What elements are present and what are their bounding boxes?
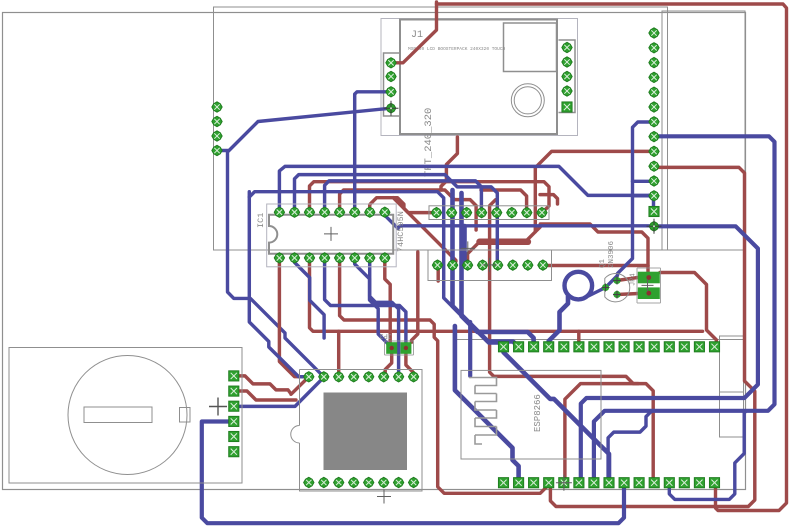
right column pad 12 xyxy=(649,191,659,201)
JP2 origin cross xyxy=(483,258,497,272)
wire blue bottom pad8 up to loop xyxy=(608,411,652,483)
wire blue battery pad3 to module pad2 xyxy=(234,377,324,406)
IC1 top pad 8 xyxy=(380,207,390,217)
pad row1 pin 10 xyxy=(634,342,644,352)
U3 bottom pad 8 xyxy=(408,477,418,487)
IC1 bottom pad 8 xyxy=(380,253,390,263)
wire red thick center segment xyxy=(480,239,528,246)
svg-text:Q1: Q1 xyxy=(599,258,607,268)
U3 top pad 4 xyxy=(349,372,359,382)
ESP8266 antenna meander xyxy=(469,378,497,445)
U3 bottom pad 1 xyxy=(304,477,314,487)
JP3 pad 2 xyxy=(400,342,411,354)
J1 left via pad xyxy=(384,101,399,116)
wire blue IC bottom pad2 down xyxy=(295,258,325,338)
U3 bottom pad 6 xyxy=(379,477,389,487)
U3 top pad 7 xyxy=(393,372,403,382)
left column pad 4 xyxy=(212,145,222,155)
wire red IC pad7 to JP1 pad1 xyxy=(370,198,437,213)
coil loop blue ring xyxy=(565,272,593,300)
IC1 top pad 1 xyxy=(274,207,284,217)
left column pad 1 xyxy=(212,102,222,112)
battery holder outline xyxy=(9,348,242,484)
U3 bottom pad 2 xyxy=(319,477,329,487)
JP4 pad 1 xyxy=(638,272,660,284)
wire blue IC pad2 to JP1 pad5 xyxy=(295,175,498,213)
wire red long diagonal to JP2 pad2 xyxy=(393,198,456,265)
IC1 top pad 3 xyxy=(304,207,314,217)
wire blue diagonal to bottom pad2 xyxy=(455,326,519,483)
IC1 bottom pad 5 xyxy=(334,253,344,263)
U3 top pad 3 xyxy=(334,372,344,382)
battery pad 6 xyxy=(229,447,239,457)
wire blue coil to Q1 xyxy=(589,288,606,296)
IC1 bottom pad 1 xyxy=(274,253,284,263)
battery pad 2 xyxy=(229,386,239,396)
wire blue IC bottom pad4 to JP3 pin2 xyxy=(325,258,406,348)
right column pad 7 xyxy=(649,117,659,127)
wire red IC bottom pad8 to JP3 pin1 xyxy=(385,258,390,342)
pad row1 pin 8 xyxy=(604,342,614,352)
wire blue JP1 pad5 to JP2 pad5 xyxy=(496,213,500,266)
U3 origin cross xyxy=(377,490,391,504)
wire blue battery pad4 bottom loop xyxy=(202,422,624,524)
U3 top pad 6 xyxy=(379,372,389,382)
JP2 pad 2 xyxy=(447,260,457,270)
connector J1 TFT_240_320 body xyxy=(381,19,578,136)
svg-text:JP4: JP4 xyxy=(630,273,638,286)
pad row2 pin 13 xyxy=(679,478,689,488)
pad row2 pin 9 xyxy=(619,478,629,488)
right column pad 3 xyxy=(649,57,659,67)
wire blue IC pad1 to right column pad xyxy=(279,166,654,212)
IC1 top pad 6 xyxy=(350,207,360,217)
pad row1 pin 3 xyxy=(529,342,539,352)
J1 right pad 1 xyxy=(562,42,572,52)
U3 bottom pad 5 xyxy=(364,477,374,487)
wire red IC pad5 jog down xyxy=(340,190,477,230)
top region outline xyxy=(214,7,668,250)
U3 top pad 8 xyxy=(408,372,418,382)
wire red battery pad1 to module pad1 xyxy=(234,376,309,394)
svg-text:J1: J1 xyxy=(411,30,423,41)
JP1 origin cross xyxy=(461,241,475,255)
IC1 bottom pad 2 xyxy=(289,253,299,263)
wire red Q1 collector to JP4 pin1 xyxy=(617,278,638,281)
J1 left pin bracket xyxy=(384,53,400,116)
IC1 bottom pad 6 xyxy=(350,253,360,263)
wire blue via right loop down to bottom pad6 xyxy=(581,226,758,482)
pad row1 pin 1 xyxy=(498,342,508,352)
JP1 pad 1 xyxy=(431,207,441,217)
module U2 ESP8266 outline xyxy=(461,370,601,459)
pad row2 pin 5 xyxy=(559,478,569,488)
pad row2 origin cross xyxy=(556,475,572,491)
J1 screen window xyxy=(504,23,557,72)
battery clip rect xyxy=(180,408,191,423)
wire red top edge loop to bottom right pad xyxy=(437,4,787,511)
wire blue esp pad4 to coil xyxy=(549,296,568,347)
battery pad 5 xyxy=(229,431,239,441)
wire red vertical to JP3 pin2 area xyxy=(412,252,418,342)
JP1 pad 2 xyxy=(446,207,456,217)
wire blue IC pad8 to via xyxy=(385,212,398,228)
svg-text:IC1: IC1 xyxy=(256,213,266,228)
right small rect xyxy=(720,336,744,437)
wire blue J1 pin to IC pad6 xyxy=(355,92,391,212)
svg-text:74HC595N: 74HC595N xyxy=(396,211,406,252)
pad row1 pin 11 xyxy=(649,342,659,352)
pad row2 pin 7 xyxy=(589,478,599,488)
pad row2 pin 15 xyxy=(709,478,719,488)
wire red center to right jog xyxy=(535,224,648,266)
JP1 pad 3 xyxy=(461,207,471,217)
Q1 pad 2 xyxy=(613,277,621,285)
wire blue IC bottom pad7 to module pad7 xyxy=(370,258,399,377)
wire blue stub right pad 196 xyxy=(633,194,655,197)
IC1 bottom pad 3 xyxy=(304,253,314,263)
pad row1 pin 12 xyxy=(664,342,674,352)
wire red header2 pad1 stub xyxy=(436,265,439,281)
wire red header2 pad8 to JP4 pin1 xyxy=(540,266,648,278)
wire blue left vertical to module pad1 xyxy=(249,192,308,377)
battery pad 3 xyxy=(229,401,239,411)
wire red right pad 151 to center xyxy=(528,151,655,239)
wire red thick segment to header pad xyxy=(468,242,480,265)
wire blue branch to right square pad xyxy=(649,195,654,211)
battery plus marker xyxy=(209,398,227,416)
U3 bottom pad 7 xyxy=(393,477,403,487)
wire red IC bottom pad1 to module pad1 xyxy=(279,258,308,377)
pad row1 pin 14 xyxy=(694,342,704,352)
pad row2 pin 6 xyxy=(574,478,584,488)
JP3 pad 1 xyxy=(386,342,397,354)
right column pad 2 xyxy=(649,43,659,53)
pad row1 pin 6 xyxy=(574,342,584,352)
wire blue J1 via long route to module pad2 xyxy=(228,108,392,377)
wire blue bottom pad11 loop xyxy=(669,411,746,500)
U3 bottom pad 3 xyxy=(334,477,344,487)
wire red J1 pin1 to top xyxy=(391,2,437,63)
pad row2 pin 4 xyxy=(544,478,554,488)
J1 left pad 1 xyxy=(386,58,396,68)
U3 top pad 2 xyxy=(319,372,329,382)
JP1 pad 6 xyxy=(507,207,517,217)
pad row2 pin 2 xyxy=(514,478,524,488)
module U3 body gray square xyxy=(324,393,408,471)
right column pad 1 xyxy=(649,28,659,38)
svg-text:MSP430 LCD BOOSTERPACK 240X320: MSP430 LCD BOOSTERPACK 240X320 TOUCH xyxy=(408,46,506,52)
JP2 pad 6 xyxy=(508,260,518,270)
J1 right pad 3 xyxy=(562,71,572,81)
right column via pad xyxy=(647,219,662,234)
wire red IC bottom pad5 long route to bottom pad4 xyxy=(340,258,549,493)
J1 left pad 3 xyxy=(386,87,396,97)
right column pad 9 xyxy=(649,146,659,156)
right column pad 5 xyxy=(649,87,659,97)
wire red filler segment xyxy=(540,195,558,204)
JP1 pad 4 xyxy=(476,207,486,217)
wire blue right pad column to Q1 base xyxy=(606,122,654,287)
bottom right region outline xyxy=(455,339,744,341)
IC1 top pad 4 xyxy=(319,207,329,217)
pad row2 pin 3 xyxy=(529,478,539,488)
JP2 pad 8 xyxy=(538,260,548,270)
module U3 outline xyxy=(291,370,422,492)
wire red filler from J1 bottom xyxy=(441,137,457,190)
wire red Q1 emitter to JP4 pin2 xyxy=(617,294,638,295)
top right region outline xyxy=(662,11,745,250)
right column pad 11 xyxy=(649,176,659,186)
header JP2 outline xyxy=(428,250,552,281)
wire blue vertical to header2 pad3 xyxy=(462,226,467,265)
pad row1 pin 5 xyxy=(559,342,569,352)
J1 right pad 2 xyxy=(562,57,572,67)
JP2 pad 5 xyxy=(493,260,503,270)
svg-text:ESP8266: ESP8266 xyxy=(533,394,543,432)
J1 right square pad xyxy=(562,102,572,112)
battery pad 4 xyxy=(229,416,239,426)
J1 wheel circle xyxy=(511,84,544,117)
J1 right pad 4 xyxy=(562,86,572,96)
right column square pad xyxy=(649,206,659,216)
wire blue crossing down to esp pad1 xyxy=(249,192,503,347)
right column pad 10 xyxy=(649,161,659,171)
pad row2 pin 1 xyxy=(498,478,508,488)
header JP1 outline xyxy=(429,206,549,220)
Q1 pad 3 xyxy=(613,291,621,299)
U3 bottom pad 4 xyxy=(349,477,359,487)
wire red branch to module pad3 xyxy=(337,331,340,377)
battery pad 1 xyxy=(229,371,239,381)
IC1 top pad 2 xyxy=(289,207,299,217)
header JP3 outline xyxy=(385,341,414,355)
wire red fork to bottom pad5 xyxy=(564,384,638,483)
pad row1 pin 2 xyxy=(514,342,524,352)
wire blue vertical to esp pad3 xyxy=(462,193,534,347)
wire blue vertical into esp area xyxy=(468,322,472,376)
pad row1 pin 7 xyxy=(589,342,599,352)
left column pad 2 xyxy=(212,116,222,126)
IC IC1 body xyxy=(269,215,393,254)
wire blue right pad to bottom pad7 xyxy=(594,136,775,482)
JP1 pad 8 xyxy=(537,207,547,217)
U3 top pad 1 xyxy=(304,372,314,382)
J1 right pin bracket xyxy=(559,40,576,113)
header JP4 outline xyxy=(637,268,661,303)
JP4 pad 2 xyxy=(638,287,660,299)
IC1 bottom pad 7 xyxy=(365,253,375,263)
wire red JP3 pin1 down to module pad6 xyxy=(384,354,392,377)
wire blue left pad4 stub xyxy=(217,149,228,152)
right column pad 8 xyxy=(649,131,659,141)
battery circle xyxy=(68,356,187,475)
wire blue IC pad4 to JP1 pad4 xyxy=(325,181,482,213)
pad row1 pin 4 xyxy=(544,342,554,352)
wire blue vertical to esp pad2 xyxy=(453,190,519,347)
pad row2 pin 10 xyxy=(634,478,644,488)
J1 left pad 2 xyxy=(386,71,396,81)
right column pad 4 xyxy=(649,72,659,82)
wire blue IC bottom pad6 to JP3 pin1 xyxy=(355,258,392,348)
wire red branch to row1 pad6 xyxy=(577,331,580,347)
pad row2 pin 11 xyxy=(649,478,659,488)
pad row1 pin 9 xyxy=(619,342,629,352)
JP2 pad 4 xyxy=(477,260,487,270)
pad row2 pin 8 xyxy=(604,478,614,488)
wire blue diagonal across esp to bottom pad8 xyxy=(504,347,610,483)
wire red battery pad2 stub xyxy=(234,391,296,400)
svg-text:2N3906: 2N3906 xyxy=(608,240,616,268)
battery slot xyxy=(84,407,152,423)
JP2 pad 1 xyxy=(432,260,442,270)
Q1 pad 1 xyxy=(602,284,610,292)
wire red vertical down across esp to bottom pad11 xyxy=(490,200,655,483)
JP1 pad 5 xyxy=(492,207,502,217)
IC1 origin cross xyxy=(324,227,338,241)
pad row1 pin 15 xyxy=(709,342,719,352)
U3 top pad 5 xyxy=(364,372,374,382)
wire blue stub right pad 181 xyxy=(633,180,655,183)
svg-text:JP3: JP3 xyxy=(379,331,392,339)
wire blue via to via horizontal xyxy=(398,226,654,229)
right small rect divider xyxy=(720,391,744,393)
IC1 top pad 7 xyxy=(365,207,375,217)
IC1 top pad 5 xyxy=(334,207,344,217)
wire red JP3 pin2 down xyxy=(406,354,414,377)
pad row1 pin 13 xyxy=(679,342,689,352)
JP2 pad 7 xyxy=(523,260,533,270)
transistor Q1 outline xyxy=(605,273,630,301)
IC IC1 bounding outline xyxy=(267,204,397,267)
JP1 pad 7 xyxy=(522,207,532,217)
pad row2 pin 12 xyxy=(664,478,674,488)
JP2 pad 3 xyxy=(462,260,472,270)
right column pad 6 xyxy=(649,102,659,112)
wire red right loop to bottom pad4 under xyxy=(549,167,755,506)
wire red long horizontal y331 xyxy=(310,258,703,331)
JP4 origin cross xyxy=(642,279,654,291)
wire red JP4 to pad row xyxy=(660,273,716,347)
pad row2 pin 14 xyxy=(694,478,704,488)
wire red to JP1 pad7 xyxy=(481,190,527,213)
left column pad 3 xyxy=(212,131,222,141)
IC1 bottom pad 4 xyxy=(319,253,329,263)
wire red IC pad3 to JP1 pad8 xyxy=(310,182,550,213)
